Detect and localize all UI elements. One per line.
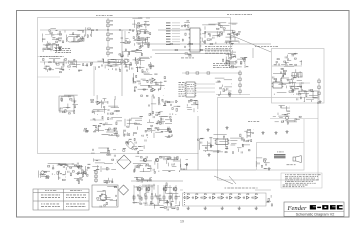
svg-text:19: 19 <box>180 220 184 224</box>
svg-text:Fender: Fender <box>286 205 306 212</box>
svg-text:Schematic Diagram V2: Schematic Diagram V2 <box>296 212 335 216</box>
